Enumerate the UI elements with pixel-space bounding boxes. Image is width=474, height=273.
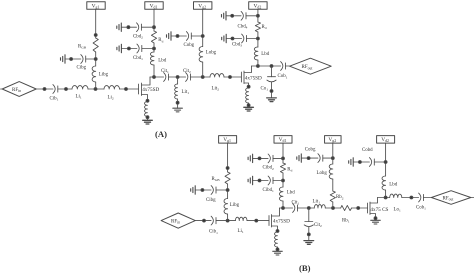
svg-text:Co1: Co1 <box>261 87 269 92</box>
node on input rail B <box>203 219 206 222</box>
inductor Lbd stage2 (A) <box>254 47 258 60</box>
wire Q1B coil to ground <box>277 247 279 251</box>
circuit B input port RFin <box>161 213 195 228</box>
wire output rail B: drain to Lo1 <box>378 197 390 199</box>
svg-text:Lo1: Lo1 <box>394 207 401 212</box>
svg-text:Li1: Li1 <box>238 229 244 234</box>
ground left of Cbd1 (A) <box>117 44 122 52</box>
inductor Q1A source degeneration coil <box>145 102 148 117</box>
node Cob1 branch rail B3 <box>410 196 413 199</box>
wire Lo1 to Cob1 (B) <box>402 197 419 199</box>
node Q1A source <box>146 99 149 102</box>
node Cbd4 branch (A) <box>257 14 260 17</box>
wire Vd1-A down <box>153 9 155 31</box>
wire Cit2 to Lit2 (A) <box>191 76 211 78</box>
node Vd2 column joins rail A3 <box>257 65 260 68</box>
wire node to Cbd3 (A) <box>247 38 258 40</box>
capacitor Cobd (B) <box>369 158 374 167</box>
supply box Vd2 (B) <box>377 136 395 144</box>
node Cibg branch (B) <box>226 189 229 192</box>
node Cibd2 ground wire (B) <box>258 157 261 160</box>
ground under Lit1 (A) <box>173 108 183 112</box>
wire Cobg to ground (A) <box>171 35 186 37</box>
svg-text:Cobg: Cobg <box>305 147 316 152</box>
supply box Vg2 (B) <box>325 136 342 144</box>
svg-text:RFout: RFout <box>302 65 313 70</box>
ground left of Cbd4 (A) <box>222 12 227 20</box>
wire interstage rail B: drain to Cit1 <box>280 207 293 209</box>
capacitor Cob1 (B) <box>419 193 424 202</box>
wire node to Cbd1 (A) <box>142 48 154 50</box>
node Cibd1 ground wire (B) <box>258 179 261 182</box>
svg-text:Vd2: Vd2 <box>254 3 262 9</box>
node on input rail A at x126 <box>125 88 128 91</box>
svg-text:RFin: RFin <box>171 220 180 225</box>
wire Cibg to ground (B) <box>195 189 211 191</box>
node Cibg ground wire (B) <box>201 189 204 192</box>
node on Vg1-B column <box>226 167 229 170</box>
transistor Q1B 4x75SD gate bar <box>268 216 270 226</box>
wire node to Cibd2 (B) <box>273 157 283 159</box>
output port RFout (B) <box>431 191 470 205</box>
inductor Lit2 (A) <box>210 74 224 77</box>
inductor Lbd stage1 (B) <box>279 187 283 201</box>
node under Cit2 (B) <box>307 233 310 236</box>
wire Lbd to rail A2 <box>153 65 155 77</box>
node Cit2 branch on rail B2 <box>307 207 310 210</box>
inductor Q1B source degeneration coil <box>275 232 278 247</box>
capacitor Cibd1 (B) <box>268 176 273 185</box>
node Lit1 branch on rail A2 <box>176 76 179 79</box>
svg-text:Rb1: Rb1 <box>342 218 350 223</box>
node Cbd2 ground wire (A) <box>127 26 130 29</box>
wire Rb1 to gate of Q2B <box>352 207 368 209</box>
transistor Q1B channel bar <box>271 215 273 228</box>
svg-text:Cib1: Cib1 <box>50 96 59 101</box>
wire RFin-A left stub <box>1 88 3 90</box>
node Cbd2 branch (A) <box>153 26 156 29</box>
svg-text:Cibd1: Cibd1 <box>263 188 275 193</box>
svg-text:Lbd: Lbd <box>389 182 397 187</box>
node on rail B2 at x358 <box>357 207 360 210</box>
branch Cit2 (B) wire down <box>308 208 310 222</box>
svg-text:Cibg: Cibg <box>77 65 87 70</box>
svg-text:Lbd: Lbd <box>261 52 269 57</box>
ground left of Cobg (B) <box>297 154 302 162</box>
node Cobd branch (B) <box>384 161 387 164</box>
capacitor Co1 (A) <box>267 77 276 82</box>
svg-text:Vg1: Vg1 <box>92 3 100 9</box>
svg-text:Vg1: Vg1 <box>223 137 231 143</box>
wire Q2A coil to ground <box>248 103 250 107</box>
inductor Q2A source degeneration coil <box>246 88 249 103</box>
svg-text:RFin: RFin <box>12 88 21 93</box>
svg-text:Cobg: Cobg <box>184 43 195 48</box>
wire Cib1 to Li1 (A) <box>58 88 72 90</box>
wire Cibd2 to ground (B) <box>253 157 269 159</box>
ground left of Cobg (A) <box>167 32 172 40</box>
ground under Co1 (A) <box>267 98 277 102</box>
wire Li1 to Li2 (A) <box>88 88 104 90</box>
capacitor Cibg (A) <box>81 55 86 64</box>
node Cibg ground wire (A) <box>70 58 73 61</box>
wire node to Cibd1 (B) <box>273 180 283 182</box>
svg-text:RGB: RGB <box>212 177 221 182</box>
node Cbd4 ground wire (A) <box>231 14 234 17</box>
wire Rd to Cibd1 node (B) <box>282 173 284 187</box>
node Vg2 column joins rail B2 <box>332 207 335 210</box>
node Cibg branch (A) <box>94 58 97 61</box>
node Vd1 column joins rail A2 <box>153 76 156 79</box>
resistor Rd stage1 (A) <box>151 31 156 43</box>
ground left of Cibd2 (B) <box>248 154 253 162</box>
svg-text:Lbd: Lbd <box>287 191 295 196</box>
capacitor Cit1 (B) <box>293 204 298 213</box>
capacitor Cob1 (A) <box>281 62 286 71</box>
ground under Q1B source <box>273 251 283 255</box>
node input rail B / Libg junction <box>226 219 229 222</box>
resistor Rd stage2 (A) <box>255 22 260 32</box>
inductor Libg (A) <box>92 66 96 82</box>
wire Cbd3 to ground (A) <box>226 38 241 40</box>
svg-text:Rb2: Rb2 <box>336 195 344 200</box>
svg-text:Vd1: Vd1 <box>150 3 158 9</box>
svg-text:Rd: Rd <box>158 38 163 43</box>
capacitor Cobg (A) <box>186 32 191 41</box>
svg-text:Cbd4: Cbd4 <box>238 24 248 29</box>
node input rail A / Libg junction <box>94 88 97 91</box>
svg-text:Cit1: Cit1 <box>292 200 300 205</box>
ground under Q2B source <box>371 220 381 224</box>
capacitor Cibd2 (B) <box>268 154 273 163</box>
node Cobg branch (A) <box>201 35 204 38</box>
ground left of Cobd (B) <box>349 158 354 166</box>
wire Vg1-B down <box>227 143 229 172</box>
wire RFin-A to Cib1 <box>36 88 53 90</box>
wire Li1 to gate of Q1B <box>247 220 269 222</box>
capacitor Cib1 (B) <box>211 216 216 225</box>
wire Li2 to gate of Q1A <box>120 88 139 90</box>
svg-text:Vd2: Vd2 <box>381 137 389 143</box>
svg-text:4x75 CS: 4x75 CS <box>370 207 388 213</box>
inductor Lbd stage2 (B) <box>382 176 386 190</box>
svg-text:Vg2: Vg2 <box>198 3 206 9</box>
wire Q1B drain to interstage rail <box>272 208 280 216</box>
wire Cibg to ground (A) <box>65 58 81 60</box>
transistor Q2B 4x75CS gate bar <box>367 203 369 213</box>
capacitor Cbd4 (A) <box>241 11 246 20</box>
svg-text:Cit1: Cit1 <box>161 69 169 74</box>
wire Lit1 to Rb1 (B) <box>325 207 340 209</box>
wire Lbd to rail B2 <box>282 201 284 208</box>
ground left of Cibd1 (B) <box>248 176 253 184</box>
svg-text:Cib1: Cib1 <box>209 230 218 235</box>
node on Vg1-A column <box>94 34 97 37</box>
wire Cbd2 to ground (A) <box>121 26 136 28</box>
svg-text:Lit1: Lit1 <box>182 90 190 95</box>
svg-text:(A): (A) <box>155 129 167 139</box>
wire Lobg to rail A2 <box>202 62 204 77</box>
svg-text:Lit2: Lit2 <box>212 87 220 92</box>
wire Lobg to Rb2 (B) <box>332 179 334 191</box>
resistor Rb2 (B) <box>330 191 335 202</box>
capacitor Cibg (B) <box>211 186 216 195</box>
node on rail A2 at x230 <box>229 76 232 79</box>
wire Cob1 to RFout-A <box>286 65 290 67</box>
inductor Lobg (B) <box>329 164 333 179</box>
wire node to Cbd4 (A) <box>246 15 258 17</box>
wire Q1B source bend <box>272 226 278 232</box>
inductor Li1 (B) <box>235 217 247 220</box>
svg-text:RGB: RGB <box>78 44 87 49</box>
wire Cobd to ground (B) <box>353 161 369 163</box>
transistor Q1A 4x75SD gate bar <box>138 84 140 94</box>
svg-text:Vd1: Vd1 <box>279 137 287 143</box>
inductor Lo1 (B) <box>390 194 402 197</box>
node Cbd1 ground wire (A) <box>127 47 130 50</box>
wire interstage rail A: drain to Cit1 <box>150 76 164 78</box>
node on input rail A at x66 <box>65 88 68 91</box>
supply box Vg1 (A) <box>87 2 105 10</box>
wire Vd2-B down <box>385 143 387 176</box>
transistor Q1A channel bar <box>141 83 143 96</box>
resistor RGB (A) <box>93 38 98 52</box>
ground left of Cbd3 (A) <box>222 34 227 42</box>
transistor Q2A channel bar <box>243 71 245 84</box>
capacitor Cbd1 (A) <box>137 44 142 53</box>
svg-text:Cbd2: Cbd2 <box>133 35 143 40</box>
wire Libg to input rail (B) <box>227 214 229 221</box>
node Cobg branch (B) <box>331 157 334 160</box>
node under Lit1 (A) <box>176 101 179 104</box>
ground under Q2A source <box>244 107 254 111</box>
svg-text:(B): (B) <box>299 263 311 273</box>
capacitor Cit2 (B) <box>304 222 313 227</box>
wire node to Cobg (B) <box>323 157 333 159</box>
svg-text:Cit2: Cit2 <box>314 223 322 228</box>
capacitor Cib1 (A) <box>53 85 58 94</box>
ground under Q1A source <box>143 120 153 124</box>
wire Cit1 to Cit2 (A) <box>169 76 186 78</box>
inductor Li1 (A) <box>72 86 88 89</box>
inductor Lit1 (A) <box>175 84 178 99</box>
svg-text:Li2: Li2 <box>108 96 114 101</box>
wire Cib1 to Li1 (B) <box>216 220 235 222</box>
svg-text:4x75SD: 4x75SD <box>245 75 262 81</box>
wire RGB to Cibg node (B) <box>227 184 229 199</box>
supply box Vd1 (B) <box>274 136 292 144</box>
svg-text:Cbd1: Cbd1 <box>133 56 143 61</box>
wire Cbd4 to ground (A) <box>226 15 241 17</box>
node Q2A source <box>247 85 250 88</box>
node Co1 branch on rail A3 <box>270 65 273 68</box>
transistor Q2A 4x75SD gate bar <box>240 72 242 82</box>
wire node to Cobg (A) <box>191 35 202 37</box>
svg-text:Cob1: Cob1 <box>416 205 426 210</box>
svg-text:Lbd: Lbd <box>158 59 166 64</box>
svg-text:4x75SD: 4x75SD <box>142 87 159 93</box>
node Vd2 column joins rail B3 <box>384 196 387 199</box>
resistor RGB (B) <box>225 172 230 184</box>
node above Q2B ground <box>374 217 377 220</box>
node above Q1B ground <box>276 248 279 251</box>
node above Q2A ground <box>247 104 250 107</box>
ground under Cit2 (B) <box>304 241 314 245</box>
branch Lit1 (A) wire down <box>177 77 179 84</box>
capacitor Cbd3 (A) <box>242 34 247 43</box>
svg-text:Li1: Li1 <box>76 95 82 100</box>
svg-text:Cibd2: Cibd2 <box>263 166 275 171</box>
supply box Vg2 (A) <box>194 2 212 10</box>
wire Cit1 to Lit1 (B) <box>298 207 315 209</box>
ground left of Cibg (B) <box>191 186 196 194</box>
wire Q1A source bend <box>142 95 148 102</box>
inductor Lit1 (B) <box>314 205 325 208</box>
svg-text:Libg: Libg <box>99 73 109 78</box>
node Vg2 column joins rail A2 <box>201 76 204 79</box>
svg-text:4x75SD: 4x75SD <box>273 219 290 225</box>
capacitor Cit2 (A) <box>186 73 191 82</box>
branch Co1 (A) wire down <box>271 66 273 77</box>
wire Co1 to ground <box>271 82 273 98</box>
wire Q2A drain to output rail <box>244 66 252 73</box>
wire Lbd2 to rail A3 <box>257 60 259 66</box>
wire Vd2-A down <box>257 9 259 22</box>
supply box Vd1 (A) <box>145 2 163 10</box>
wire Lit1 to ground <box>177 99 179 108</box>
node Cibd1 branch (B) <box>282 179 285 182</box>
node Cobd ground wire (B) <box>359 161 362 164</box>
resistor Rb1 (B) <box>341 205 352 210</box>
svg-text:Cobd: Cobd <box>362 148 373 153</box>
node Vd1 column joins rail B2 <box>282 207 285 210</box>
wire Cobg to ground (B) <box>301 157 318 159</box>
node above Q1A ground <box>146 116 149 119</box>
node Q1B source <box>276 230 279 233</box>
wire node to Cbd2 (A) <box>141 26 154 28</box>
wire RFin-B to Cib1 <box>195 220 211 222</box>
wire Lbd2 to rail B3 <box>385 190 387 198</box>
capacitor Cobg (B) <box>318 154 323 163</box>
node Cibd2 branch (B) <box>282 157 285 160</box>
transistor Q2B channel bar <box>369 202 371 215</box>
svg-text:Libg: Libg <box>230 203 240 208</box>
supply box Vd2 (A) <box>249 2 267 10</box>
svg-text:Rd: Rd <box>262 25 267 30</box>
wire node to Cibg (A) <box>86 58 96 60</box>
svg-text:Lobg: Lobg <box>317 171 328 176</box>
svg-text:Cit2: Cit2 <box>183 69 191 74</box>
node Cbd1 branch (A) <box>153 47 156 50</box>
wire Cit2 to ground <box>308 227 310 241</box>
circuit A input port RFin <box>2 82 36 97</box>
wire Q2B drain to output rail <box>370 198 378 204</box>
node on input rail A at x44 <box>43 88 46 91</box>
node Cobg ground wire (B) <box>307 157 310 160</box>
svg-text:Lit1: Lit1 <box>313 199 321 204</box>
wire Q1A source coil to ground <box>147 117 149 121</box>
node Cobg ground wire (A) <box>176 35 179 38</box>
capacitor Cbd2 (A) <box>137 23 142 32</box>
node Cbd3 ground wire (A) <box>231 37 234 40</box>
node under Co1 (A) <box>270 90 273 93</box>
svg-text:Cbd3: Cbd3 <box>232 43 242 48</box>
wire Vg1-A down to RGB <box>95 9 97 38</box>
svg-text:Vg2: Vg2 <box>328 137 336 143</box>
wire Vd1-B down <box>282 143 284 163</box>
wire Cbd1 to ground (A) <box>121 48 136 50</box>
capacitor Cit1 (A) <box>164 73 169 82</box>
inductor Libg (B) <box>224 199 228 215</box>
wire Vg2-B down <box>332 143 334 164</box>
node Cbd3 branch (A) <box>257 37 260 40</box>
wire Lit2 to gate of Q2A <box>224 76 241 78</box>
wire output rail A: drain to Co1 node <box>252 65 281 67</box>
wire RGB to Cibg node (A) <box>95 52 97 66</box>
supply box Vg1 (B) <box>219 136 237 144</box>
inductor Li2 (A) <box>104 86 120 89</box>
wire Cibd1 to ground (B) <box>253 180 269 182</box>
wire Vg2-A down <box>202 9 204 46</box>
svg-text:Cob1: Cob1 <box>278 74 288 79</box>
wire Q2B source to ground <box>370 214 376 221</box>
wire Rd2 to Cbd3 node (A) <box>257 32 259 47</box>
output port RFout (A) <box>290 58 332 74</box>
svg-text:Rd: Rd <box>287 167 292 172</box>
wire Q1A drain to interstage rail <box>142 77 151 85</box>
inductor Lobg (A) <box>199 47 203 63</box>
svg-text:RFout: RFout <box>443 197 454 202</box>
wire Q2A source bend <box>244 83 249 88</box>
resistor Rd (B) <box>280 163 285 173</box>
wire Cob1 to RFout-B <box>424 197 432 199</box>
inductor Lbd stage1 (A) <box>150 52 154 65</box>
svg-text:Cibg: Cibg <box>206 198 216 203</box>
wire Rb2 to rail B2 <box>332 202 334 208</box>
wire node to Cobd (B) <box>374 161 385 163</box>
ground left of Cbd2 (A) <box>117 23 122 31</box>
wire node to Cibg (B) <box>216 189 228 191</box>
wire Rd to Cbd1 node (A) <box>153 43 155 52</box>
wire Libg to input rail (A) <box>95 82 97 89</box>
svg-text:Lobg: Lobg <box>206 50 217 55</box>
ground left of Cibg (A) <box>61 55 66 63</box>
wire RFout-B right stub <box>471 197 474 199</box>
node on input rail B at x256 <box>255 219 258 222</box>
